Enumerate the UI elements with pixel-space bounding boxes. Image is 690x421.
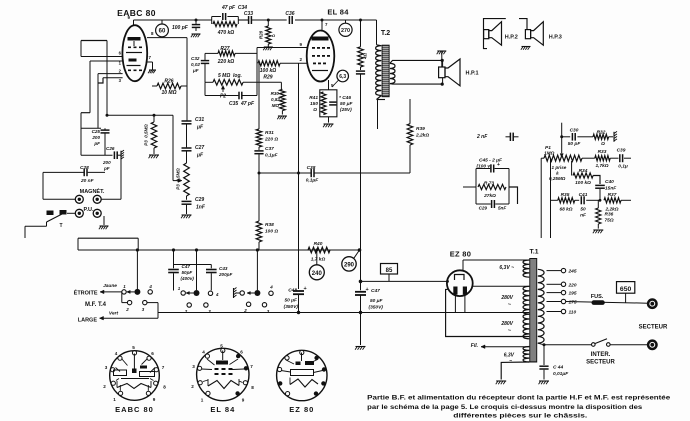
svg-text:μF: μF [192, 68, 199, 73]
svg-text:+: + [304, 286, 307, 292]
wire LARGE [100, 317, 159, 319]
svg-text:P3 0,5MΩ: P3 0,5MΩ [176, 168, 181, 190]
tube base EABC 80 outline [110, 351, 160, 401]
svg-text:220 Ω: 220 Ω [264, 137, 278, 143]
terminal PU right [93, 209, 101, 217]
svg-text:220 kΩ: 220 kΩ [217, 59, 235, 65]
svg-text:1 prise: 1 prise [552, 165, 567, 170]
svg-text:6: 6 [151, 351, 154, 356]
svg-text:MAGNÉT.: MAGNÉT. [80, 187, 105, 195]
terminal SECTEUR bottom [648, 341, 656, 349]
tap wires [547, 270, 562, 272]
svg-text:différentes pièces sur le châs: différentes pièces sur le châssis. [453, 413, 587, 420]
potentiometer P3a 0.5M with ground [153, 115, 155, 122]
svg-text:50 pF: 50 pF [568, 141, 582, 147]
wire PU right ground [103, 216, 105, 225]
svg-text:C29: C29 [479, 206, 488, 211]
svg-text:650: 650 [620, 286, 632, 293]
svg-text:200pF: 200pF [218, 272, 232, 277]
pin 1 lead (EABC80) [90, 60, 123, 62]
svg-text:8: 8 [251, 385, 254, 390]
wire HT line y281.4 [360, 250, 362, 281]
svg-text:50: 50 [580, 207, 586, 213]
svg-text:5: 5 [220, 344, 223, 349]
svg-text:EABC 80: EABC 80 [115, 405, 154, 414]
capacitor C32 0.02uF [204, 53, 206, 60]
wire ground rail y312.5 [158, 312, 529, 314]
svg-text:pF: pF [93, 141, 100, 146]
svg-text:200: 200 [91, 135, 100, 140]
svg-text:50 μF: 50 μF [370, 298, 384, 304]
svg-text:3: 3 [105, 365, 108, 370]
svg-text:8: 8 [163, 385, 166, 390]
svg-text:6: 6 [240, 350, 243, 355]
svg-text:SECTEUR: SECTEUR [586, 360, 615, 366]
switch group 3 contacts [256, 250, 258, 290]
svg-text:R40: R40 [314, 241, 323, 247]
svg-text:R38: R38 [265, 222, 274, 228]
svg-text:9: 9 [242, 398, 245, 403]
resistor R34 100k on tap [571, 161, 573, 176]
tube base EL 84 pins [221, 348, 225, 352]
svg-text:0,25MΩ: 0,25MΩ [549, 176, 566, 181]
svg-text:290: 290 [344, 262, 355, 268]
pin 7 lead (EABC80) [147, 61, 153, 63]
tube EZ80 envelope U3 [447, 270, 473, 296]
svg-text:110: 110 [569, 310, 577, 316]
svg-text:C26: C26 [106, 146, 115, 151]
resistor R28 [267, 20, 269, 26]
switch INTER SECTEUR [592, 343, 596, 347]
svg-text:2,2kΩ: 2,2kΩ [415, 133, 429, 139]
svg-text:LARGE: LARGE [78, 318, 98, 324]
wire EZ80 heater top [462, 260, 464, 270]
transformer T1 core [530, 259, 537, 363]
svg-text:~: ~ [509, 359, 512, 365]
svg-text:5 MΩ log.: 5 MΩ log. [218, 73, 242, 79]
svg-text:μF: μF [196, 153, 204, 159]
svg-text:2: 2 [184, 309, 188, 314]
svg-text:C47: C47 [371, 288, 380, 294]
svg-text:R36: R36 [605, 212, 614, 218]
pin 9 lead (EABC80) [133, 20, 135, 25]
svg-text:Vert: Vert [109, 311, 119, 317]
wire wiper to P3b [172, 115, 174, 180]
transformer T2 core [382, 45, 389, 96]
tube base EZ80 internals [301, 353, 303, 362]
speaker HP1 [439, 67, 445, 78]
svg-text:EL 84: EL 84 [327, 8, 349, 17]
wire fuse line 175V [566, 302, 648, 304]
svg-text:par le schéma de la page 5. Le: par le schéma de la page 5. Le croquis c… [367, 404, 642, 411]
resistor R41 150 ohm with capacitor C46 50uF (parallel cathode block) [320, 90, 337, 117]
pin 5 lead (EL84) [328, 80, 330, 90]
svg-text:240: 240 [312, 271, 323, 277]
ground R36 [593, 229, 603, 231]
wire bus2 y250 [78, 249, 360, 251]
capacitor C41 50nF [575, 199, 580, 201]
svg-text:Partie B.F. et alimentation du: Partie B.F. et alimentation du récepteur… [367, 395, 670, 402]
svg-text:1,7kΩ: 1,7kΩ [595, 163, 608, 169]
svg-text:15nF: 15nF [605, 186, 617, 192]
pin 3 lead (EABC80) [103, 77, 123, 79]
svg-text:2: 2 [103, 384, 106, 389]
svg-text:R29: R29 [263, 75, 272, 81]
wire C45 block right [509, 187, 518, 204]
tube base EL84 internals [222, 351, 224, 361]
svg-text:195: 195 [569, 291, 577, 297]
wire second vertical [550, 158, 552, 238]
svg-text:200: 200 [102, 160, 111, 165]
svg-text:220: 220 [568, 282, 577, 288]
svg-text:C39: C39 [617, 148, 626, 154]
svg-text:1: 1 [113, 397, 116, 402]
chassis bar group3 [233, 288, 235, 298]
svg-text:EABC 80: EABC 80 [117, 8, 156, 18]
svg-text:(400v): (400v) [181, 276, 195, 281]
svg-text:P2: P2 [220, 94, 226, 100]
ground HP3 [522, 46, 531, 48]
wire y115 horizontal [107, 114, 173, 116]
svg-text:Ω: Ω [312, 107, 317, 113]
svg-text:C35 47 pF: C35 47 pF [229, 101, 255, 107]
resistor 4ohm + capacitor across T2 primary [360, 20, 362, 47]
svg-text:0,82: 0,82 [271, 97, 280, 102]
wire T2 primary bottom [377, 96, 382, 100]
tube base EABC80 internals [133, 354, 135, 369]
capacitor C47b 50pF 400V [173, 250, 175, 268]
svg-text:C41: C41 [579, 192, 588, 198]
transformer T1 winding 6.3V bottom (fil) [523, 347, 529, 363]
svg-text:C25: C25 [92, 129, 101, 134]
capacitor C44 0.01uF [539, 365, 548, 367]
wire vertical x90 [89, 61, 91, 113]
svg-text:+: + [497, 162, 500, 168]
svg-text:R33: R33 [598, 149, 607, 155]
svg-text:R32: R32 [597, 130, 606, 136]
wire bus1 y238 [78, 237, 138, 239]
pin 8 lead (EABC80) [147, 37, 187, 39]
svg-text:μF: μF [196, 125, 204, 131]
svg-text:280V: 280V [500, 295, 513, 301]
chassis bar R32 [613, 132, 615, 142]
wire bottom-left corner [25, 225, 47, 227]
svg-text:ÉTROITE: ÉTROITE [74, 289, 98, 297]
svg-text:100 pF: 100 pF [172, 25, 189, 31]
svg-text:7: 7 [162, 365, 165, 370]
svg-text:0,1μ: 0,1μ [618, 164, 628, 170]
ground cathode EL84 [328, 117, 330, 123]
pin 7 lead (EL84) [321, 20, 323, 31]
terminal MAGNET left [75, 195, 83, 203]
svg-text:Fil.: Fil. [471, 343, 478, 349]
wire grid-leak vertical x298.5 [298, 63, 300, 250]
resistor R33 1.7k [582, 157, 595, 159]
node 240 (circle) [315, 249, 318, 252]
wire vertical node x257 [256, 48, 258, 96]
svg-text:C43: C43 [219, 266, 228, 271]
wire plate loop left [446, 289, 530, 336]
capacitor C43 200pF [174, 264, 212, 266]
capacitor C29 1nF [182, 200, 192, 202]
resistor R36 75 ohm [597, 200, 599, 208]
wire PU left lead [67, 212, 75, 214]
svg-text:R41: R41 [309, 95, 318, 101]
transformer T2 primary winding [376, 20, 378, 45]
potentiometer P3b 0.5M [184, 163, 190, 196]
svg-text:280V: 280V [500, 321, 513, 327]
svg-text:100 kΩ: 100 kΩ [260, 68, 277, 74]
wire vertical x107 [106, 41, 108, 116]
wire P1 left down to bus [540, 158, 542, 238]
svg-text:C38: C38 [307, 165, 316, 171]
resistor R31 220 ohm [258, 63, 260, 129]
svg-text:SECTEUR: SECTEUR [639, 325, 668, 331]
ground R30 [278, 115, 287, 117]
svg-text:EZ 80: EZ 80 [289, 405, 314, 414]
svg-text:4: 4 [115, 351, 118, 356]
svg-text:à: à [556, 171, 559, 176]
svg-text:+: + [366, 287, 369, 293]
svg-text:50 μF: 50 μF [340, 101, 354, 107]
wire EZ80 cathode line [446, 280, 449, 283]
svg-text:R30: R30 [271, 91, 280, 96]
terminal MAGNET right [93, 195, 101, 203]
ground R28 [267, 44, 269, 47]
node 270 (circle) [345, 20, 347, 23]
svg-text:P1: P1 [545, 145, 551, 151]
tube EL84 internals [312, 37, 329, 41]
tube base EZ 80 outline [277, 350, 327, 400]
svg-text:0,1μF: 0,1μF [265, 153, 279, 159]
wire magnet branch [42, 172, 44, 199]
tube EABC80 internals [128, 37, 141, 41]
switch T [47, 211, 54, 216]
ground C47 [356, 346, 366, 348]
svg-text:5nF: 5nF [498, 206, 506, 211]
wire vertical x98 [97, 74, 99, 129]
svg-text:pF: pF [103, 166, 110, 171]
svg-text:4: 4 [215, 292, 219, 297]
capacitor C40 15nF [593, 176, 600, 185]
node 60 (circle) [161, 20, 163, 24]
resistor R30 0.82M [280, 82, 282, 89]
svg-text:9: 9 [153, 397, 156, 402]
svg-text:M.F. T.4: M.F. T.4 [85, 302, 107, 308]
svg-text:FUS.: FUS. [591, 294, 604, 300]
tube base EZ 80 pins [300, 350, 304, 354]
wire mains bottom [538, 343, 544, 345]
svg-text:R31: R31 [265, 130, 274, 136]
resistor R26 10M [152, 85, 157, 87]
svg-text:4Ω: 4Ω [363, 53, 368, 61]
svg-text:470 kΩ: 470 kΩ [217, 30, 235, 36]
svg-text:4: 4 [148, 284, 152, 289]
svg-text:0,02: 0,02 [191, 62, 200, 67]
svg-text:C30: C30 [570, 128, 579, 134]
svg-text:C48: C48 [288, 288, 297, 294]
wire pin3 jog [98, 78, 103, 83]
wire detector to volume [186, 38, 188, 121]
svg-text:EL 84: EL 84 [210, 405, 235, 414]
wire horizontal y128 [81, 127, 101, 129]
node 290 (circle) [342, 257, 356, 271]
svg-text:(350V): (350V) [284, 304, 299, 310]
capacitor C29b 5nF [476, 203, 491, 205]
transformer T1 winding 6.3V top [463, 259, 529, 261]
svg-text:EZ 80: EZ 80 [450, 250, 472, 259]
chassis bar at C26 [120, 151, 122, 160]
svg-text:T: T [59, 223, 62, 229]
transformer T1 winding 280V upper [523, 286, 529, 314]
svg-text:1,7 kΩ: 1,7 kΩ [311, 257, 326, 263]
wire pin9 EL84 [257, 47, 307, 49]
svg-text:(350V): (350V) [369, 305, 384, 311]
tube EZ80 internals [455, 275, 465, 281]
svg-text:6,3V ~: 6,3V ~ [499, 265, 514, 271]
wire top rail [134, 19, 212, 21]
svg-text:* C46: * C46 [339, 95, 351, 101]
tube EABC80 envelope U1 [122, 25, 147, 81]
tube base EABC 80 pins [132, 351, 136, 355]
svg-text:H.P.2: H.P.2 [505, 35, 518, 41]
node 650 (box) [617, 282, 635, 294]
resistor R37 2.2k [599, 199, 602, 202]
resistor R38 100 ohm [258, 173, 260, 221]
svg-text:150: 150 [310, 101, 318, 107]
svg-text:4: 4 [269, 285, 273, 290]
svg-text:R39: R39 [416, 126, 425, 132]
svg-text:10 MΩ: 10 MΩ [161, 90, 176, 96]
capacitor C48 50uF 350V electrolytic [298, 250, 300, 289]
svg-text:Jaune: Jaune [103, 283, 117, 289]
svg-text:50pF: 50pF [182, 270, 193, 275]
capacitor C47 50uF 350V electrolytic [360, 281, 362, 290]
svg-text:50 μF: 50 μF [285, 298, 299, 304]
svg-text:175: 175 [569, 300, 577, 306]
capacitor C39 0.1uF [610, 157, 618, 159]
wire T2 secondary to speaker [390, 60, 443, 63]
svg-text:7: 7 [250, 364, 253, 369]
svg-text:T.1: T.1 [529, 249, 538, 256]
capacitor C31 [186, 119, 189, 121]
wire vertical x121 [120, 159, 122, 199]
svg-text:INTER.: INTER. [591, 352, 611, 358]
svg-text:C32: C32 [191, 56, 200, 61]
transformer T1 secondary winding (mains) [538, 269, 544, 343]
wire magnet right to x121 [101, 198, 121, 200]
svg-text:H.P.1: H.P.1 [466, 71, 479, 77]
svg-text:Ω: Ω [600, 141, 605, 147]
transformer T2 secondary winding [390, 63, 395, 83]
wire y173 with capacitor C38 0.1uF [259, 172, 311, 174]
svg-text:68 kΩ: 68 kΩ [559, 207, 572, 213]
svg-text:MΩ: MΩ [272, 103, 280, 108]
switch group 2 contacts [181, 291, 185, 295]
svg-text:1: 1 [201, 398, 204, 403]
svg-text:3: 3 [192, 364, 195, 369]
svg-text:6,3: 6,3 [339, 74, 346, 80]
svg-text:H.P.3: H.P.3 [549, 35, 562, 41]
node 6,3 (circle) [337, 70, 349, 82]
resistor R39 2.2k [409, 99, 411, 124]
resistor R35 68k [551, 199, 558, 201]
svg-text:(25V): (25V) [340, 107, 352, 113]
wire plate right to winding [473, 285, 530, 287]
capacitor C27 [182, 147, 192, 149]
ground above HP1 [437, 50, 446, 52]
svg-text:C31: C31 [195, 117, 204, 123]
resistor R29 100k on grid wire [258, 62, 260, 64]
speaker HP2 [484, 30, 489, 39]
svg-text:0,01μF: 0,01μF [553, 371, 569, 377]
svg-text:100 Ω: 100 Ω [265, 229, 278, 235]
svg-text:60: 60 [159, 29, 166, 35]
svg-text:1nF: 1nF [196, 205, 206, 211]
wire fil bottom to ground [501, 362, 529, 380]
wire P1 wiper from above [561, 123, 563, 154]
svg-text:5: 5 [132, 345, 135, 350]
svg-text:T.2: T.2 [381, 30, 390, 37]
svg-text:270: 270 [341, 28, 350, 34]
svg-text:245: 245 [568, 269, 577, 275]
tube EL84 envelope U2 [307, 31, 335, 82]
capacitor C35 47pF [204, 82, 206, 95]
svg-text:C 44: C 44 [553, 365, 563, 371]
svg-text:85: 85 [386, 268, 393, 274]
svg-text:R28: R28 [259, 30, 264, 39]
terminal SECTEUR top [648, 300, 656, 308]
speaker HP2 bracket wire [484, 19, 506, 49]
wire step top-left [81, 40, 107, 42]
svg-text:2: 2 [125, 307, 129, 312]
svg-text:27kΩ: 27kΩ [483, 193, 496, 199]
wire mains switch line [544, 344, 592, 346]
speaker HP3 top wire [519, 19, 527, 30]
tube base EL 84 outline [197, 348, 249, 400]
svg-text:C40: C40 [605, 179, 614, 185]
svg-text:2 nF: 2 nF [476, 134, 488, 140]
svg-text:R26: R26 [164, 79, 173, 85]
svg-text:20 nF: 20 nF [80, 178, 95, 184]
terminal PU left [75, 209, 83, 217]
svg-text:P.U.: P.U. [84, 207, 94, 213]
speaker HP3 [525, 30, 530, 39]
wire EZ80 plate bars down [454, 295, 456, 313]
pin 6 lead (EABC80) [81, 56, 123, 58]
ground C44 [539, 380, 549, 382]
svg-text:2: 2 [191, 384, 194, 389]
switch group 1 contacts [122, 290, 126, 294]
svg-text:4: 4 [202, 350, 205, 355]
svg-text:75Ω: 75Ω [605, 218, 614, 224]
node 85 (box) [381, 264, 398, 275]
capacitor C37 0.1uF [258, 147, 260, 150]
svg-text:P3 0,5MΩ: P3 0,5MΩ [144, 124, 149, 146]
ground C29 [182, 214, 192, 216]
svg-text:0,1μF: 0,1μF [306, 178, 320, 184]
transformer T1 winding 280V lower [523, 314, 529, 339]
svg-text:C29: C29 [195, 197, 204, 203]
svg-text:100 kΩ: 100 kΩ [575, 180, 591, 186]
svg-text:C37: C37 [265, 146, 274, 152]
pin 2 lead (EABC80) [98, 73, 123, 75]
svg-text:C27: C27 [195, 145, 204, 151]
